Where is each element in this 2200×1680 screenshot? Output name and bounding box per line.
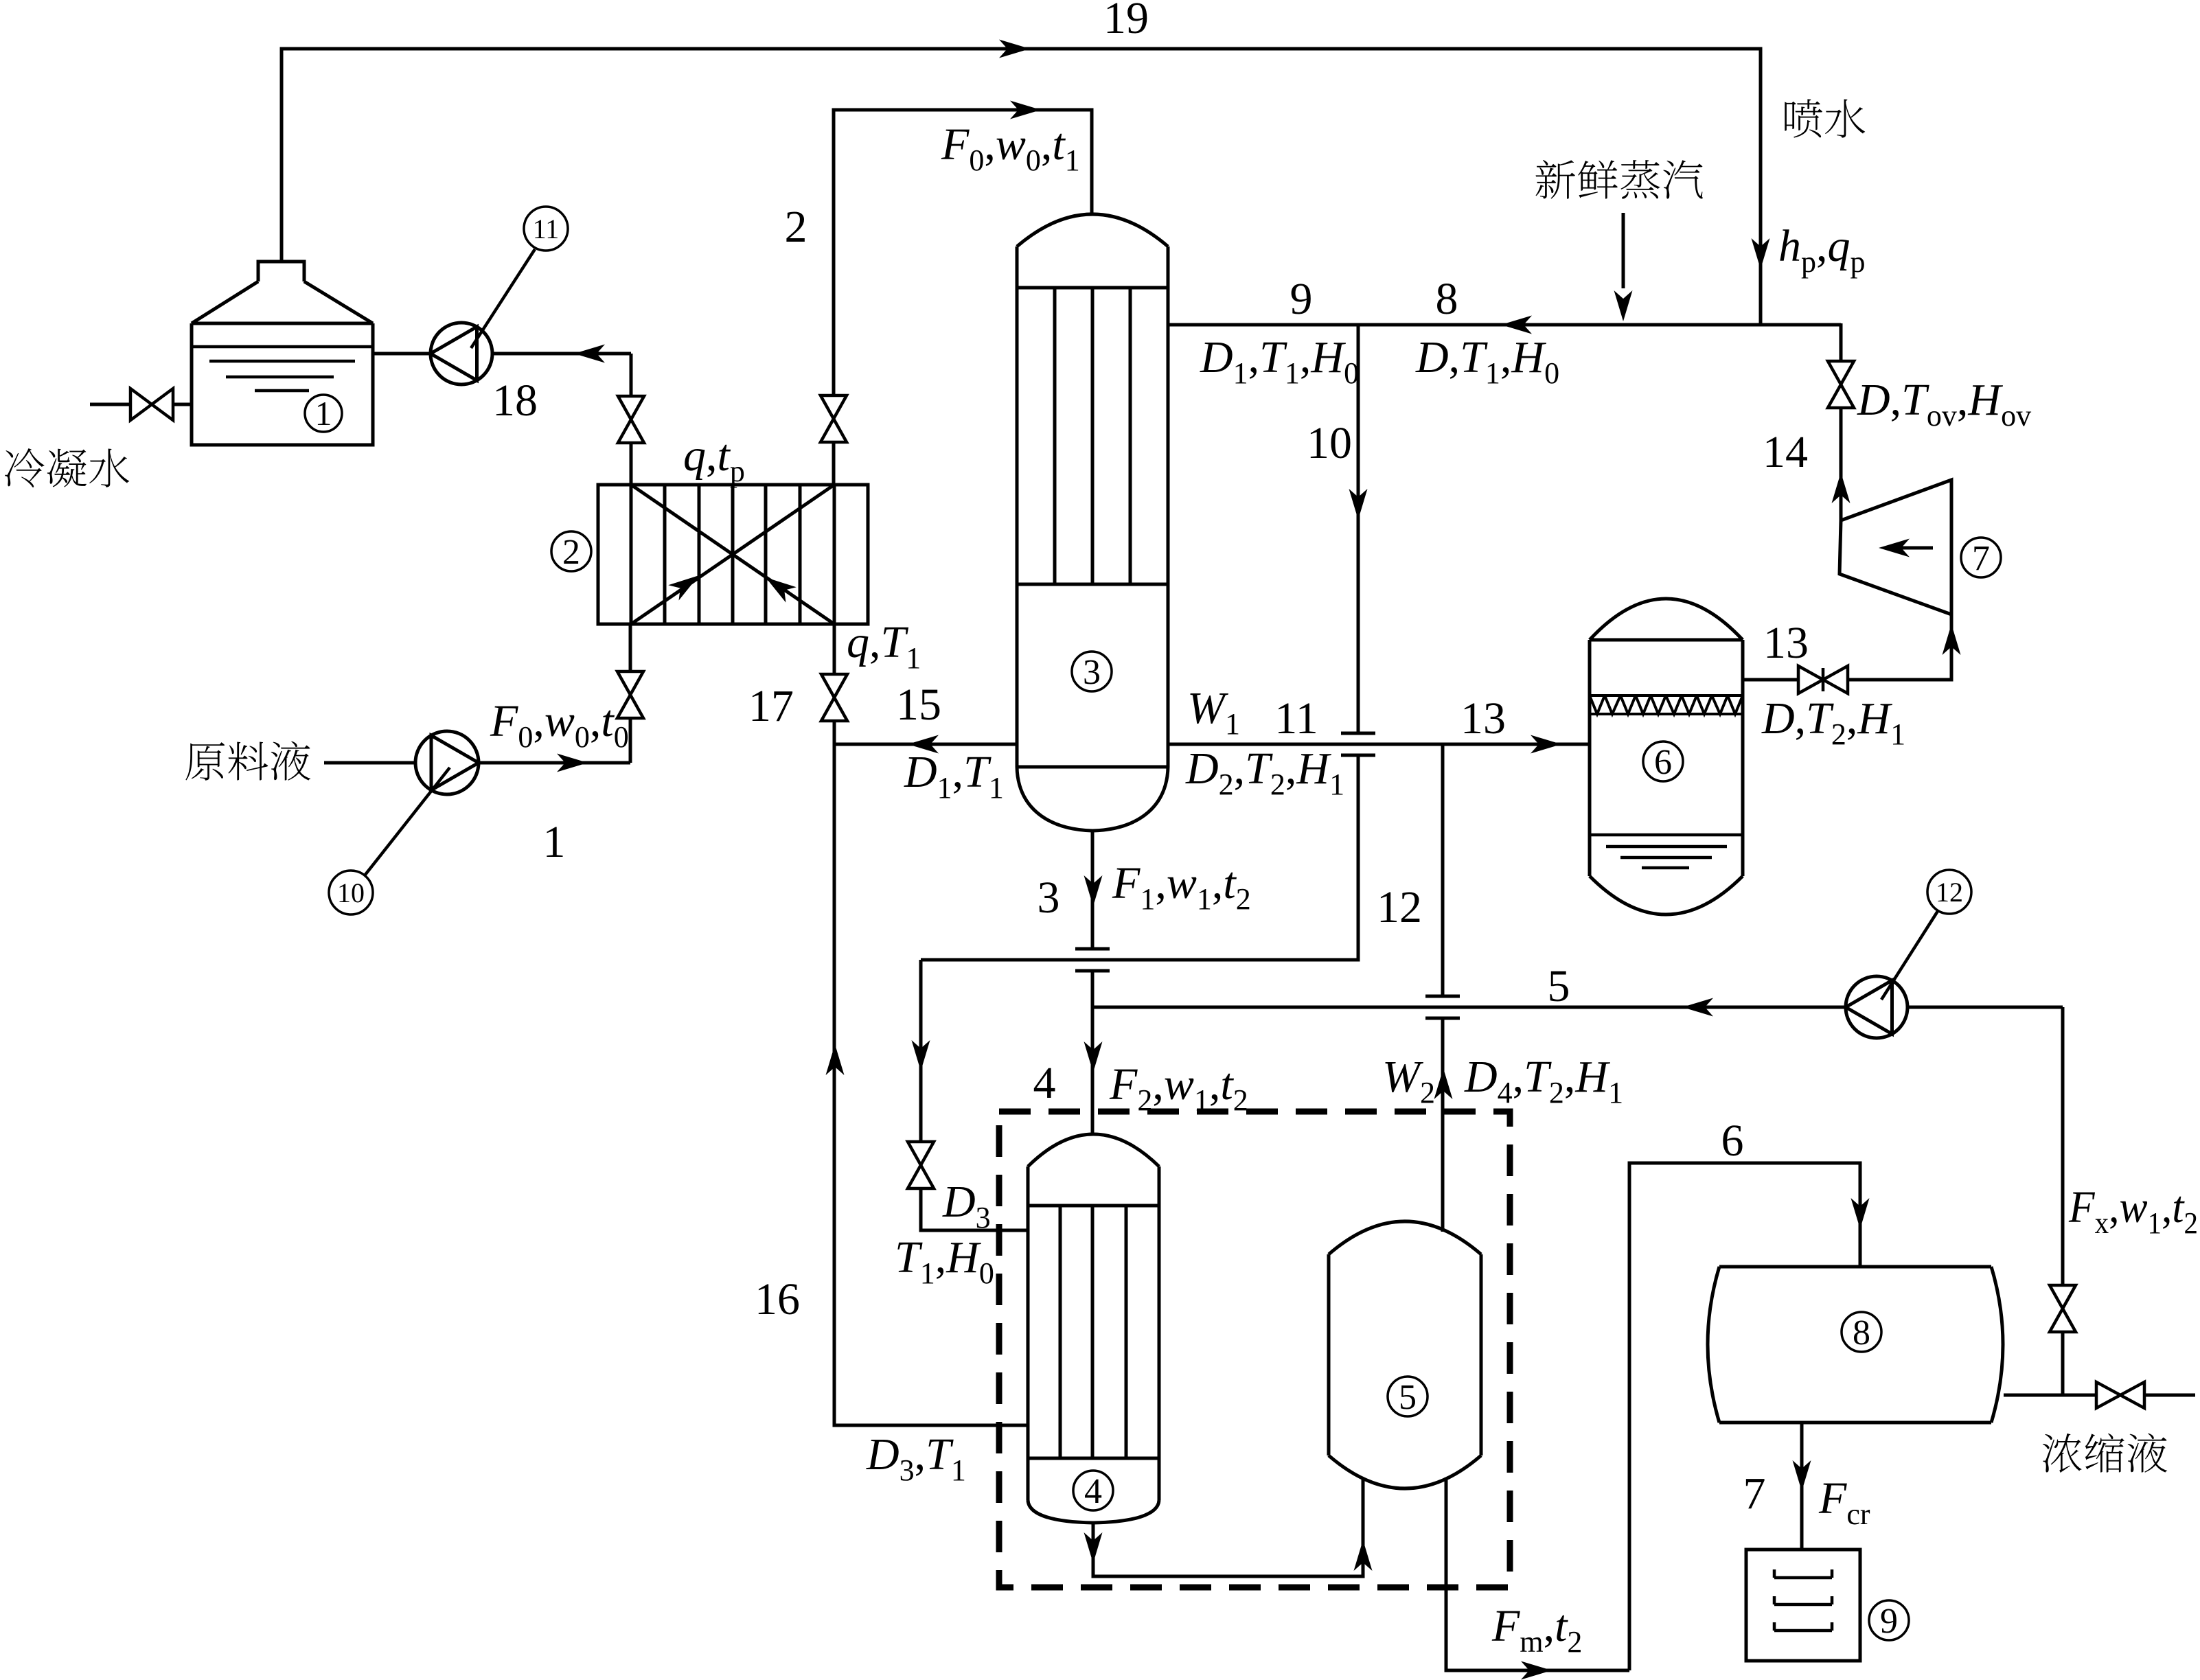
wire stream 15 [834, 743, 1017, 746]
valve on Fx line [2050, 1285, 2076, 1332]
wire compressor suction stream 13 right [1743, 614, 1951, 680]
svg-text:7: 7 [1972, 539, 1990, 578]
svg-text:Fx,w1,t2: Fx,w1,t2 [2068, 1182, 2198, 1240]
separator 5 [1329, 1221, 1481, 1488]
svg-text:18: 18 [492, 376, 538, 426]
tank 1 condensate tank [192, 262, 373, 445]
svg-text:12: 12 [1936, 877, 1963, 908]
valve condensate inlet [130, 389, 173, 420]
svg-text:10: 10 [337, 877, 365, 908]
separator 6 [1590, 599, 1743, 914]
svg-text:4: 4 [1084, 1472, 1102, 1511]
svg-text:F0,w0,t1: F0,w0,t1 [941, 119, 1080, 177]
svg-text:D2,T2,H1: D2,T2,H1 [1185, 744, 1344, 801]
evaporator 4 [1028, 1134, 1159, 1523]
wire stream 6 riser [1629, 1163, 1860, 1670]
label raw liquor [185, 742, 225, 781]
wire fresh steam arrow [1622, 213, 1625, 288]
label circled 5 [1388, 1377, 1428, 1416]
svg-text:D1,T1,H0: D1,T1,H0 [1200, 332, 1359, 390]
svg-text:7: 7 [1743, 1469, 1766, 1519]
svg-text:6: 6 [1721, 1116, 1744, 1166]
label circled 3 [1072, 652, 1112, 691]
svg-text:3: 3 [1038, 873, 1060, 923]
svg-text:4: 4 [1033, 1058, 1056, 1108]
valve concentrate outlet [2096, 1382, 2144, 1408]
wire stream 12 [1441, 744, 1445, 1232]
svg-text:2: 2 [785, 202, 807, 252]
svg-text:11: 11 [1274, 693, 1318, 744]
dashed box heat pump unit [999, 1112, 1510, 1587]
svg-text:5: 5 [1399, 1378, 1417, 1417]
svg-text:14: 14 [1763, 427, 1808, 477]
wire compressor discharge stream 14 [1840, 409, 1843, 520]
pump 11 [431, 323, 492, 384]
label circled 2 [551, 531, 591, 571]
centrifuge 9 [1746, 1550, 1860, 1661]
wire condensate inlet [90, 403, 192, 406]
svg-text:12: 12 [1377, 882, 1422, 932]
svg-text:5: 5 [1548, 961, 1570, 1011]
pointer line pump11 [471, 249, 535, 348]
label circled 12 [1927, 870, 1971, 914]
valve D Tov Hov [1828, 361, 1854, 408]
wire stream Fm [1446, 1477, 1629, 1670]
label circled 6 [1643, 741, 1683, 781]
label circled 8 [1842, 1312, 1881, 1352]
wire pump11 to valve18 stream 18 [373, 354, 631, 485]
label circled 9 [1869, 1600, 1909, 1640]
svg-text:10: 10 [1307, 418, 1352, 468]
svg-text:15: 15 [896, 680, 941, 730]
svg-text:1: 1 [543, 817, 566, 867]
wire stream 3 / 4 [1091, 831, 1095, 1134]
label circled 7 [1961, 538, 2001, 577]
svg-text:D4,T2,H1: D4,T2,H1 [1464, 1052, 1623, 1109]
wire stream 2 riser [834, 110, 1092, 485]
valve 18 [618, 396, 644, 443]
valve D3 [908, 1142, 934, 1188]
wire stream 19 top [282, 49, 1761, 323]
label circled 4 [1073, 1471, 1113, 1510]
wire stream 11 / 13 main [1168, 743, 1590, 746]
pointer line pump10 [363, 768, 450, 878]
svg-text:F2,w1,t2: F2,w1,t2 [1109, 1059, 1248, 1117]
svg-text:F1,w1,t2: F1,w1,t2 [1112, 858, 1251, 916]
svg-text:11: 11 [533, 214, 560, 244]
node crossover 12 x 5 [1425, 996, 1460, 1018]
wire stream 5 [1093, 1007, 2063, 1395]
svg-text:8: 8 [1436, 274, 1458, 324]
wire stream 10 [921, 325, 1358, 960]
wire evaporator4 bottom recirculation [1093, 1477, 1363, 1576]
label spray water [1785, 99, 1822, 137]
svg-text:16: 16 [755, 1274, 800, 1324]
label circled 10 [329, 871, 373, 914]
label concentrate [2043, 1434, 2082, 1473]
heat exchanger 2 preheater [598, 485, 868, 624]
node crossover 10 x 11 [1341, 733, 1375, 755]
wire spray water down-arrow [1752, 238, 1770, 269]
svg-text:9: 9 [1290, 274, 1313, 324]
svg-text:2: 2 [562, 533, 580, 572]
compressor 7 [1840, 480, 1951, 614]
svg-text:1: 1 [315, 394, 332, 433]
pump 10 feed pump [415, 731, 479, 794]
pump 12 [1846, 976, 1907, 1038]
wire D3 drop and to heater4 [921, 960, 1028, 1230]
wire stream 16/17 riser [834, 624, 1028, 1425]
pointer line pump12 [1881, 909, 1939, 1000]
wire concentrate outlet [2004, 1394, 2195, 1397]
svg-text:13: 13 [1763, 618, 1809, 668]
svg-text:8: 8 [1853, 1313, 1870, 1353]
label fresh steam [1535, 160, 1574, 199]
svg-text:3: 3 [1083, 653, 1101, 692]
label condensate water [5, 448, 44, 487]
node crossover 3 x D3line [1075, 949, 1110, 971]
wire feed line stream 1 [324, 624, 630, 763]
svg-text:9: 9 [1880, 1602, 1898, 1641]
svg-text:F0,w0,t0: F0,w0,t0 [490, 696, 629, 754]
svg-text:19: 19 [1103, 0, 1149, 43]
wire stream 9 / 8 [1168, 323, 1841, 360]
tank 8 crystallizer tank [1708, 1267, 2003, 1423]
valve on stream 2 [821, 395, 847, 442]
valve feed under HX [617, 671, 643, 718]
svg-text:6: 6 [1654, 743, 1672, 782]
valve on stream 13 [1798, 666, 1848, 693]
valve 17 [821, 674, 847, 721]
wire tank8 bottom outlet stream 7 [1800, 1423, 1804, 1550]
label circled 1 [305, 395, 342, 432]
label circled 11 [524, 207, 568, 251]
svg-text:17: 17 [748, 681, 794, 731]
evaporator 3 heating chamber [1090, 110, 1094, 214]
svg-text:13: 13 [1460, 693, 1506, 744]
